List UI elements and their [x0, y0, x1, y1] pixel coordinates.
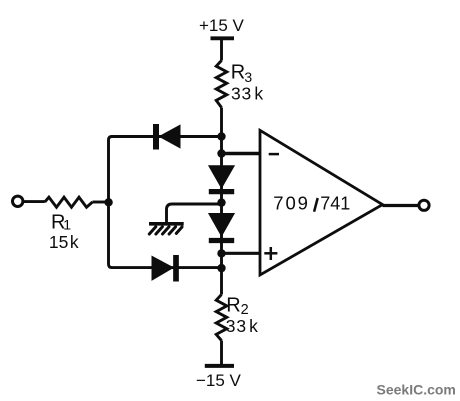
svg-text:33 k: 33 k	[226, 316, 259, 336]
junction non-inverting input / rail	[217, 249, 225, 257]
svg-text:R: R	[226, 294, 240, 316]
svg-text:3: 3	[244, 69, 252, 85]
wire non-inverting input	[222, 252, 261, 255]
svg-text:15 k: 15 k	[49, 232, 79, 252]
diode D1 (left branch, pointing left) cathode bar	[153, 124, 159, 150]
junction R1 / feedback rail	[104, 198, 112, 206]
diode D1 triangle	[160, 125, 181, 148]
diode D4 cathode bar	[209, 238, 234, 243]
label slash	[314, 198, 318, 212]
svg-text:1: 1	[63, 216, 71, 232]
wire input	[23, 200, 45, 203]
power rail +15V bar	[211, 36, 235, 40]
svg-text:33 k: 33 k	[231, 84, 264, 104]
wire R2 to -15V rail	[220, 341, 223, 366]
svg-text:+15 V: +15 V	[199, 16, 245, 35]
op-amp minus sign	[269, 153, 279, 156]
svg-text:−15 V: −15 V	[196, 371, 242, 390]
diode D4 (vertical chain lower) triangle	[209, 214, 234, 237]
resistor R3 zigzag	[216, 61, 227, 108]
svg-text:R: R	[231, 61, 245, 83]
resistor R2 zigzag	[216, 295, 227, 341]
wire left feedback rail	[109, 137, 113, 268]
diode D2 (left branch, pointing right) triangle	[152, 256, 173, 280]
wire ground branch	[167, 204, 222, 223]
svg-text:SeekIC.com: SeekIC.com	[377, 382, 456, 398]
svg-text:741: 741	[320, 194, 350, 214]
resistor R1 zigzag	[45, 197, 93, 207]
junction D1 branch / rail	[217, 132, 225, 140]
diode D2 cathode bar	[173, 255, 179, 282]
wire +15V rail to R3	[220, 38, 223, 60]
wire output	[383, 204, 419, 207]
junction inverting input / rail	[217, 149, 225, 157]
ground hatching	[149, 227, 182, 234]
wire R1 to node	[93, 201, 109, 204]
input terminal circle	[13, 196, 23, 206]
wire R3 to diode chain and op-amp input rail	[220, 108, 223, 295]
wire bottom-left diode branch	[111, 266, 222, 269]
power rail -15V bar	[205, 364, 234, 368]
junction D2 branch / rail	[217, 264, 225, 272]
svg-text:709: 709	[273, 193, 310, 214]
wire inverting input	[222, 152, 261, 155]
op-amp plus sign	[264, 247, 277, 260]
junction ground branch / diode chain	[217, 198, 225, 206]
output terminal circle	[419, 200, 429, 210]
op-amp U1 triangle	[260, 130, 383, 275]
diode D3 (vertical chain upper) triangle	[209, 166, 234, 188]
ground symbol bar	[149, 222, 184, 226]
wire top-left diode branch	[111, 135, 222, 138]
diode D3 cathode bar	[209, 189, 234, 194]
